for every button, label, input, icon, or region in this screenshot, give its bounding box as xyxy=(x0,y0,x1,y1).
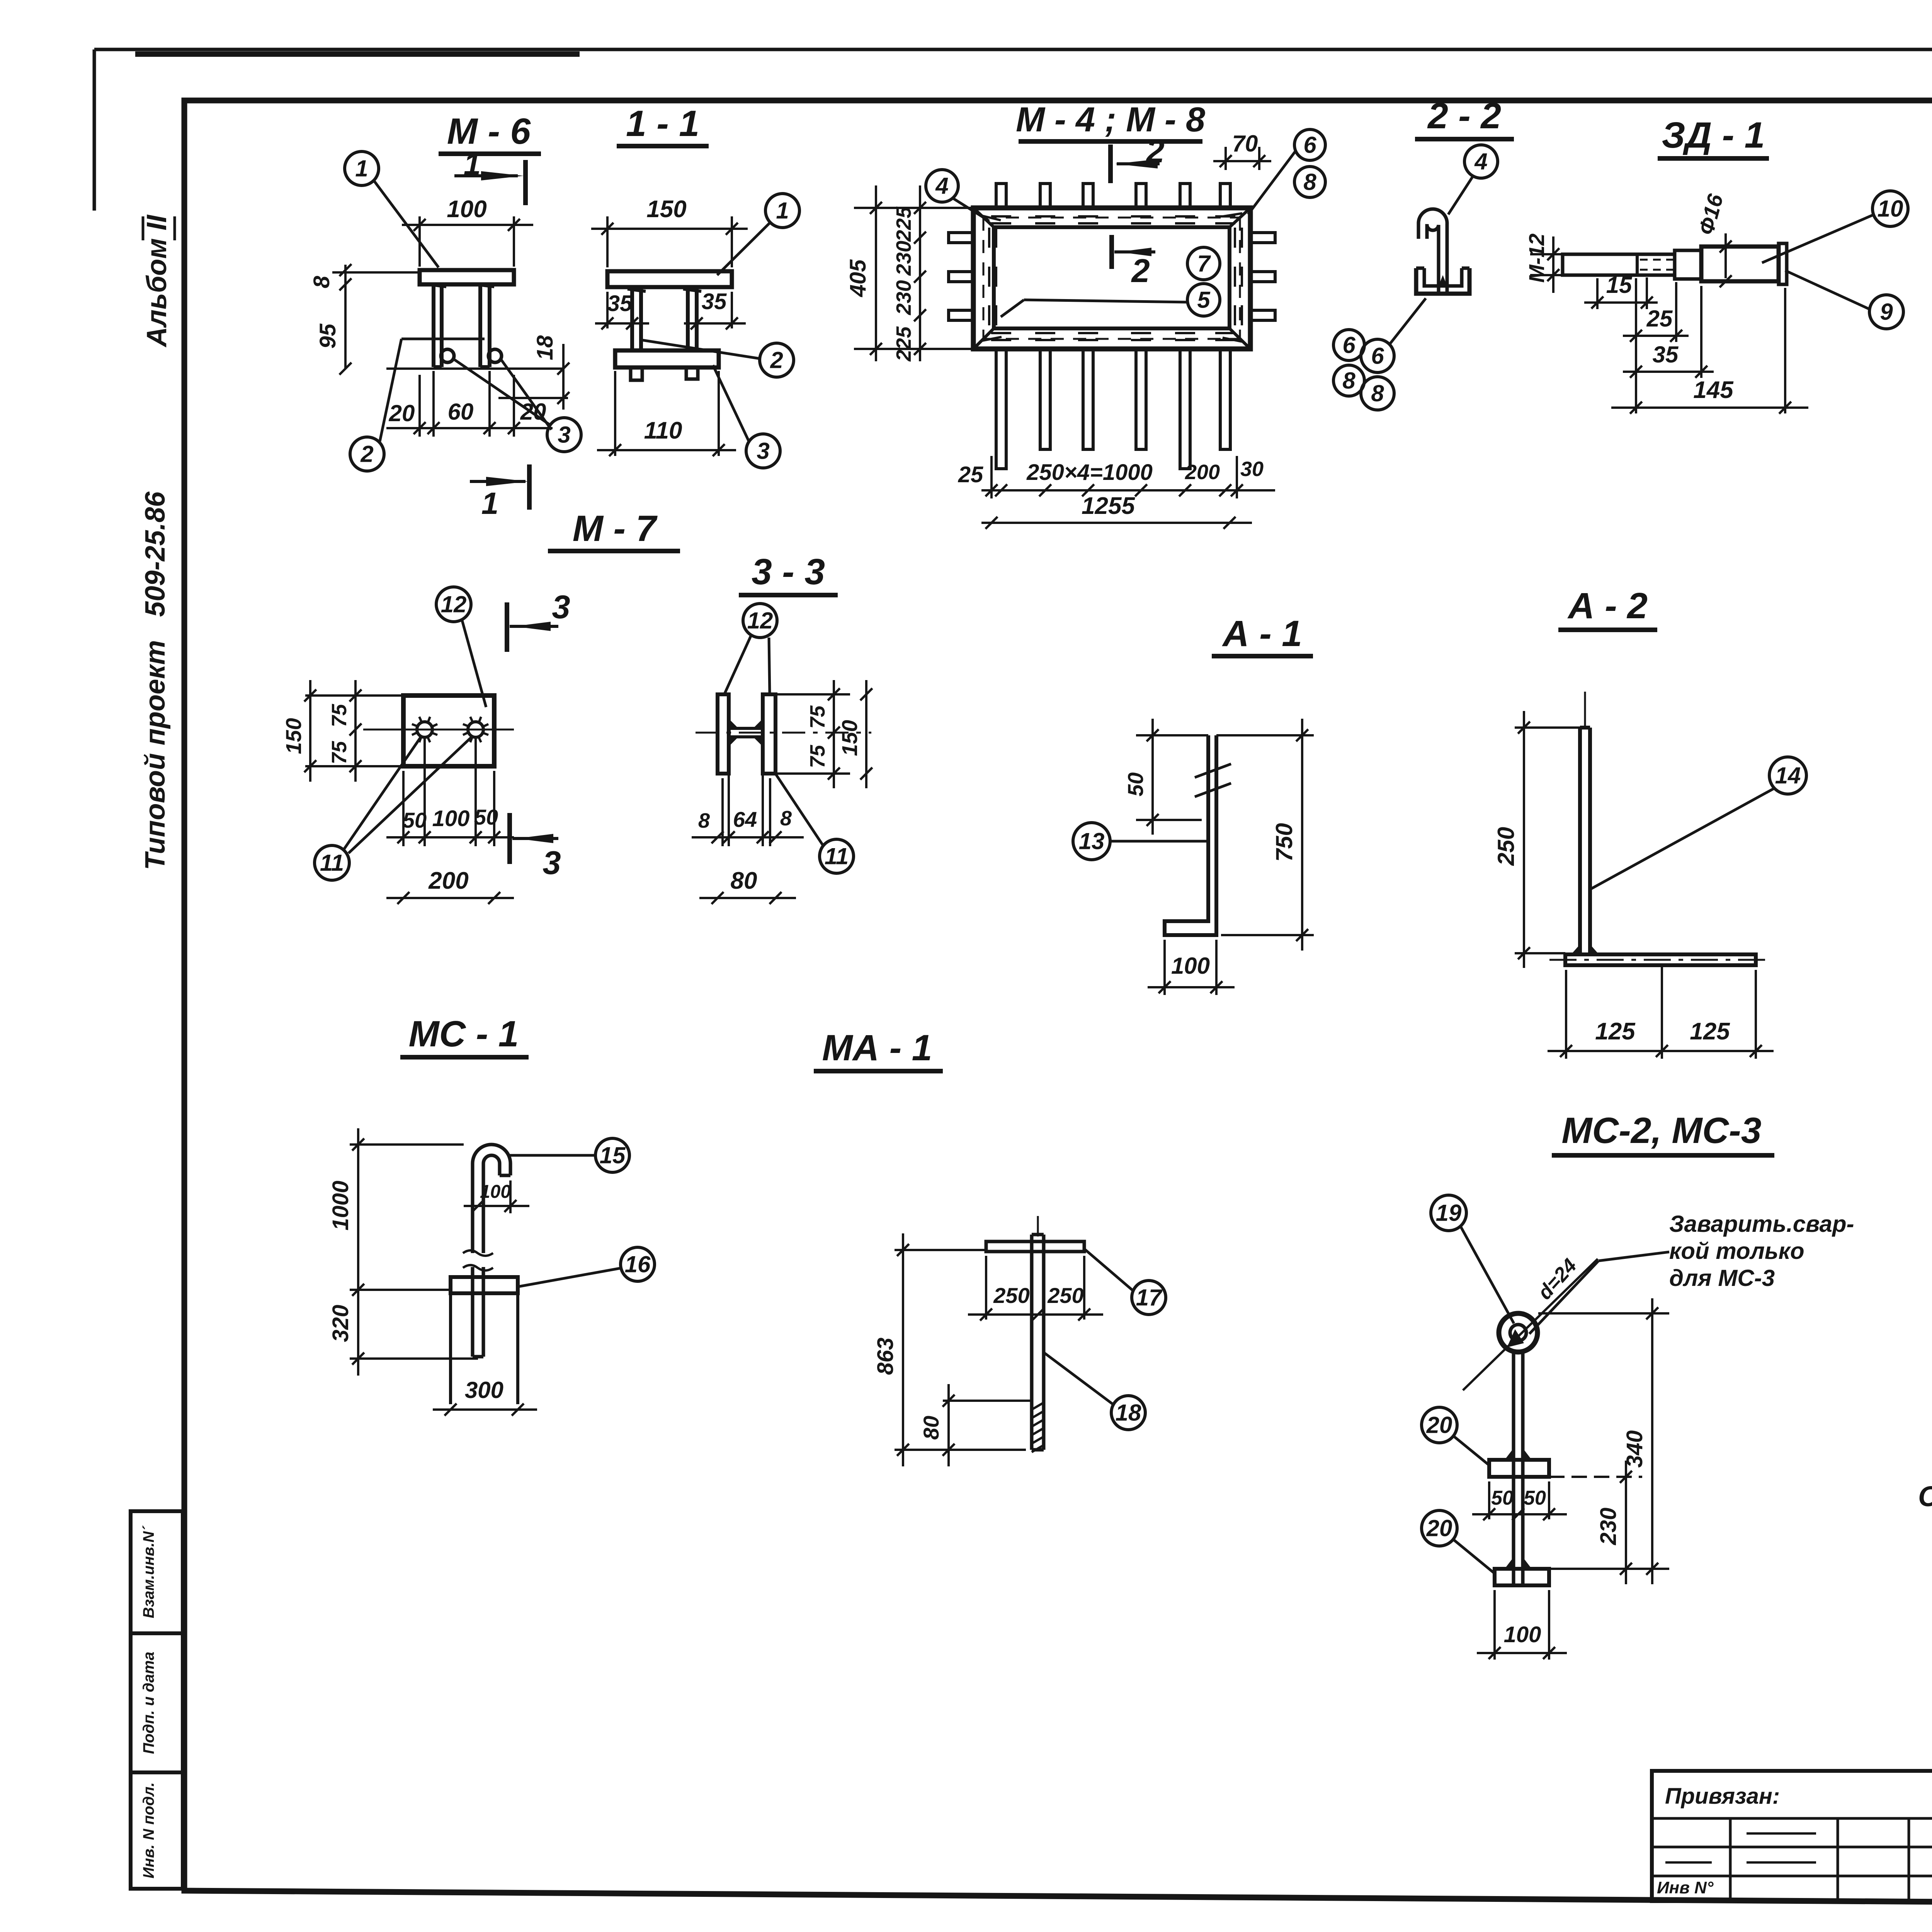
МС-2 upper plate xyxy=(1489,1460,1549,1477)
1-1 dim 35 left xyxy=(606,292,609,328)
М-6 plate xyxy=(420,270,514,284)
А-1 balloon 13 xyxy=(1073,823,1110,860)
М-7 left dims 75 75 150 xyxy=(305,694,403,697)
svg-text:230: 230 xyxy=(892,241,915,276)
svg-text:30: 30 xyxy=(1240,457,1264,481)
3-3 flange left xyxy=(718,694,729,774)
svg-text:Взам.инв.N´: Взам.инв.N´ xyxy=(140,1525,157,1618)
М-4 left dim chain 225 230 230 225 xyxy=(919,185,921,361)
svg-text:300: 300 xyxy=(465,1377,503,1403)
svg-text:250: 250 xyxy=(1493,827,1519,866)
А-2 balloon 14 xyxy=(1769,757,1806,794)
svg-text:25: 25 xyxy=(1646,306,1673,332)
svg-text:75: 75 xyxy=(328,704,351,727)
svg-text:9: 9 xyxy=(1880,299,1893,325)
1-1 balloon 2 xyxy=(760,343,794,377)
svg-text:А - 2: А - 2 xyxy=(1567,585,1648,626)
А-2 rod xyxy=(1578,728,1582,954)
М-7 hole left xyxy=(417,722,432,737)
svg-text:11: 11 xyxy=(320,850,344,876)
1-1 leg stubs below anchor plate xyxy=(631,367,642,380)
svg-text:М - 4 ; М - 8: М - 4 ; М - 8 xyxy=(1016,100,1205,139)
А-2 dim 125 125 xyxy=(1565,970,1567,1059)
МА-1 dim 80 xyxy=(943,1400,1032,1402)
2-2 balloon 6 xyxy=(1361,339,1394,372)
svg-text:2 - 2: 2 - 2 xyxy=(1427,95,1501,136)
svg-text:8: 8 xyxy=(698,809,710,832)
svg-text:3: 3 xyxy=(543,845,561,881)
svg-text:МС - 1: МС - 1 xyxy=(409,1014,519,1054)
svg-text:8: 8 xyxy=(1342,367,1355,393)
1-1 leg right xyxy=(686,287,690,350)
ЗД-1 balloon 9 xyxy=(1869,295,1903,329)
svg-text:200: 200 xyxy=(1185,461,1220,484)
МС-1 balloon 15 xyxy=(595,1138,629,1172)
svg-text:100: 100 xyxy=(1171,953,1210,979)
svg-text:А - 1: А - 1 xyxy=(1222,613,1302,654)
svg-text:60: 60 xyxy=(448,399,474,425)
М-4 frame inner xyxy=(994,227,1230,328)
svg-text:50: 50 xyxy=(474,805,498,829)
view М-6 section mark 1 bottom xyxy=(470,480,526,483)
МС-2 dim 340 xyxy=(1538,1312,1669,1315)
svg-text:80: 80 xyxy=(919,1416,943,1440)
svg-text:5: 5 xyxy=(1197,287,1211,313)
svg-text:100: 100 xyxy=(447,196,486,223)
svg-text:15: 15 xyxy=(1606,272,1633,298)
3-3 dim 80 xyxy=(699,897,796,899)
svg-text:145: 145 xyxy=(1693,377,1734,403)
М-4 bottom studs xyxy=(996,349,1006,469)
svg-text:Инв N°: Инв N° xyxy=(1657,1878,1714,1897)
М-4 dim 405 xyxy=(875,185,877,361)
А-1 dim 100 xyxy=(1163,940,1166,995)
МС-1 sleeve walls xyxy=(449,1293,452,1404)
svg-text:75: 75 xyxy=(806,705,829,729)
svg-text:МА - 1: МА - 1 xyxy=(822,1027,932,1068)
svg-text:80: 80 xyxy=(731,867,757,894)
3-3 bottom dim 8 64 8 xyxy=(721,778,724,846)
svg-text:Заварить.свар-: Заварить.свар- xyxy=(1669,1211,1854,1237)
svg-text:12: 12 xyxy=(441,591,467,617)
М-6 dim 100 xyxy=(418,216,421,267)
svg-text:125: 125 xyxy=(1595,1018,1636,1045)
svg-text:3 - 3: 3 - 3 xyxy=(752,551,825,592)
svg-text:1 - 1: 1 - 1 xyxy=(626,103,699,144)
svg-text:320: 320 xyxy=(328,1305,353,1342)
svg-text:225: 225 xyxy=(892,206,915,242)
svg-text:18: 18 xyxy=(1116,1400,1141,1425)
1-1 dim 110 xyxy=(614,371,616,456)
МС-2 lower plate xyxy=(1495,1569,1549,1585)
svg-text:225: 225 xyxy=(892,326,915,362)
М-7 dim 200 xyxy=(386,897,514,899)
МС-2 rod xyxy=(1512,1350,1515,1585)
svg-text:Подп. и дата: Подп. и дата xyxy=(140,1652,157,1754)
ЗД-1 cylinder xyxy=(1701,247,1779,281)
2-2 leader to balloons 6 8 xyxy=(1390,298,1426,344)
М-4 section mark 2 inner xyxy=(1109,235,1114,269)
svg-text:230: 230 xyxy=(892,280,915,315)
ЗД-1 end cap xyxy=(1779,243,1787,284)
М-7 section mark 3 bottom xyxy=(507,813,512,864)
1-1 anchor plate xyxy=(615,350,719,367)
МС-2 weld above lower plate xyxy=(1505,1557,1532,1569)
svg-text:15: 15 xyxy=(600,1142,626,1168)
svg-text:100: 100 xyxy=(1504,1622,1541,1647)
А-2 weld at junction xyxy=(1571,944,1599,954)
svg-text:200: 200 xyxy=(428,867,468,894)
svg-text:МС-2, МС-3: МС-2, МС-3 xyxy=(1561,1110,1761,1151)
marginal stamp table bottom left xyxy=(131,1511,183,1889)
М-7 balloon 11 xyxy=(315,845,349,880)
М-7 center line through holes xyxy=(363,729,514,731)
ЗД-1 dim 35 xyxy=(1623,371,1714,373)
svg-text:20: 20 xyxy=(1426,1515,1452,1541)
svg-text:70: 70 xyxy=(1232,131,1258,156)
svg-text:50: 50 xyxy=(1524,1487,1546,1509)
svg-text:8: 8 xyxy=(1371,380,1384,406)
М-4 balloon 8 right xyxy=(1333,365,1364,396)
svg-text:7: 7 xyxy=(1197,250,1211,276)
svg-text:4: 4 xyxy=(935,173,948,199)
svg-text:250×4=1000: 250×4=1000 xyxy=(1026,460,1153,485)
МС-1 dim 1000 xyxy=(350,1143,464,1146)
svg-text:230: 230 xyxy=(1596,1508,1621,1546)
svg-text:2: 2 xyxy=(770,347,783,373)
privyazan block xyxy=(1652,1771,1932,1901)
МС-2 diagonal line with label d=24 xyxy=(1463,1259,1598,1390)
МС-2 weld above upper plate xyxy=(1505,1448,1532,1460)
svg-text:Типовой проект 509-25.86: Типовой проект 509-25.86 xyxy=(140,491,171,870)
svg-text:150: 150 xyxy=(837,720,862,756)
МС-2 balloon 20 lower xyxy=(1422,1510,1457,1546)
М-4 balloon 8 top xyxy=(1294,167,1325,197)
МС-2 balloon 19 xyxy=(1431,1195,1466,1231)
М-4 right studs xyxy=(1250,233,1275,243)
МС-1 sleeve plate xyxy=(451,1277,518,1293)
А-1 dim 50 xyxy=(1136,734,1208,736)
М-7 balloon 12 xyxy=(436,587,471,622)
МС-2 dim 230 xyxy=(1549,1476,1642,1478)
А-1 dim 750 xyxy=(1216,734,1314,736)
МС-1 break marks on rod xyxy=(463,1250,493,1270)
svg-text:3: 3 xyxy=(558,422,570,447)
М-6 balloon 1 xyxy=(345,151,379,185)
М-4 hidden dash lines in frame xyxy=(983,217,1240,219)
svg-text:17: 17 xyxy=(1136,1284,1163,1310)
svg-text:75: 75 xyxy=(806,745,829,768)
svg-text:М - 6: М - 6 xyxy=(447,111,531,152)
МС-2 dim 100 xyxy=(1493,1590,1496,1660)
svg-text:16: 16 xyxy=(625,1251,651,1277)
2-2 channel xyxy=(1416,268,1469,294)
3-3 weld triangles xyxy=(729,719,763,747)
svg-text:50: 50 xyxy=(1491,1487,1514,1509)
1-1 balloon 3 xyxy=(746,434,780,468)
svg-text:14: 14 xyxy=(1775,762,1801,788)
М-7 hole rays xyxy=(412,717,488,742)
svg-text:75: 75 xyxy=(328,741,351,764)
svg-text:50: 50 xyxy=(1123,772,1148,796)
svg-text:110: 110 xyxy=(644,417,682,444)
МА-1 crossbar xyxy=(986,1242,1084,1252)
svg-text:Альбом II: Альбом II xyxy=(141,214,172,347)
МА-1 dim 250 250 xyxy=(985,1256,987,1320)
ЗД-1 dim 145 xyxy=(1611,406,1808,409)
М-6 balloon 2 xyxy=(350,437,384,471)
svg-text:64: 64 xyxy=(733,807,757,832)
М-4 balloon 6 top xyxy=(1294,129,1325,160)
svg-text:1: 1 xyxy=(776,197,789,223)
3-3 center line xyxy=(696,732,871,734)
МА-1 threaded bottom hatch xyxy=(1032,1403,1044,1452)
М-7 bottom dim 50 100 50 xyxy=(402,771,405,846)
ЗД-1 dim 15 xyxy=(1596,278,1599,309)
3-3 balloon 11 xyxy=(820,839,854,873)
2-2 hook rod xyxy=(1418,209,1447,294)
МС-2 dim 50 50 xyxy=(1488,1481,1490,1519)
2-2 balloon 4 xyxy=(1464,145,1498,178)
А-1 rod with foot xyxy=(1165,735,1216,935)
svg-text:Привязан:: Привязан: xyxy=(1665,1784,1780,1809)
svg-text:Совместно с данным листом см.: Совместно с данным листом см. листы , 15… xyxy=(1918,1480,1932,1512)
svg-text:25: 25 xyxy=(958,462,983,487)
ЗД-1 thread dashes xyxy=(1640,259,1673,261)
svg-text:10: 10 xyxy=(1878,196,1903,221)
svg-text:150: 150 xyxy=(646,196,686,223)
svg-text:1: 1 xyxy=(481,486,499,520)
1-1 plate xyxy=(607,271,732,287)
svg-text:35: 35 xyxy=(1653,342,1679,367)
МС-1 dim 300 xyxy=(433,1408,537,1411)
svg-text:8: 8 xyxy=(780,807,792,830)
МС-2 note leader xyxy=(1599,1252,1669,1261)
2-2 balloon 8 xyxy=(1361,377,1394,410)
svg-text:для МС-3: для МС-3 xyxy=(1669,1265,1775,1291)
МС-1 balloon 16 xyxy=(621,1247,655,1281)
outer sheet border top xyxy=(94,48,1932,51)
МС-2 eye xyxy=(1499,1313,1537,1352)
outer sheet border left (upper part) xyxy=(93,49,96,211)
ЗД-1 collar xyxy=(1675,250,1701,279)
svg-text:35: 35 xyxy=(607,291,633,316)
svg-text:750: 750 xyxy=(1271,823,1297,862)
М-6 anchor leg right xyxy=(478,284,482,367)
1-1 leg left xyxy=(630,287,634,350)
М-6 dim 8 xyxy=(344,265,347,292)
М-6 anchor leg left xyxy=(432,284,435,367)
М-6 balloon 3 xyxy=(547,418,581,452)
svg-text:100: 100 xyxy=(432,806,470,831)
svg-text:8: 8 xyxy=(309,276,334,288)
svg-text:1000: 1000 xyxy=(328,1180,353,1230)
ЗД-1 dim 25 xyxy=(1635,278,1637,413)
М-4 dim 1255 xyxy=(981,522,1252,524)
svg-text:50: 50 xyxy=(403,808,427,832)
МС-1 dim 320 xyxy=(350,1357,478,1360)
М-6 dim 95 xyxy=(344,284,347,369)
1-1 dim 150 xyxy=(606,216,609,267)
svg-text:250: 250 xyxy=(1047,1283,1083,1308)
svg-text:100: 100 xyxy=(480,1182,511,1202)
svg-text:ЗД - 1: ЗД - 1 xyxy=(1662,115,1765,156)
М-7 hole right xyxy=(468,722,483,737)
М-4 top studs xyxy=(996,184,1006,208)
3-3 right dims 75 75 150 xyxy=(776,693,850,696)
3-3 balloon 12 xyxy=(743,604,777,638)
svg-text:125: 125 xyxy=(1690,1018,1730,1045)
М-4 balloon 7 xyxy=(1187,247,1220,280)
svg-text:35: 35 xyxy=(702,289,727,314)
svg-text:11: 11 xyxy=(825,843,849,869)
М-6 plate extension line left xyxy=(332,271,420,274)
svg-text:6: 6 xyxy=(1371,343,1384,369)
М-4 balloon 6 right xyxy=(1333,330,1364,361)
svg-text:3: 3 xyxy=(552,589,570,626)
МА-1 dim 863 xyxy=(895,1249,986,1251)
МС-1 hook rod xyxy=(473,1145,510,1253)
М-7 section mark 3 top xyxy=(505,602,509,652)
svg-text:20: 20 xyxy=(1426,1412,1452,1438)
svg-text:8: 8 xyxy=(1303,169,1316,195)
А-2 center line through plate xyxy=(1549,959,1770,961)
svg-text:12: 12 xyxy=(747,607,773,633)
svg-text:863: 863 xyxy=(873,1338,898,1375)
1-1 dim 35 right xyxy=(696,294,698,328)
svg-text:2: 2 xyxy=(1131,253,1150,289)
ЗД-1 rod xyxy=(1563,254,1675,275)
МА-1 center line above xyxy=(1037,1216,1039,1236)
М-4 bottom dim line 25 250x4=1000 200 30 xyxy=(981,489,1275,492)
svg-text:6: 6 xyxy=(1303,132,1316,158)
МА-1 balloon 17 xyxy=(1132,1281,1166,1315)
svg-text:150: 150 xyxy=(281,718,306,754)
М-4 left studs xyxy=(949,233,973,243)
М-4 frame outer xyxy=(973,208,1250,349)
svg-text:405: 405 xyxy=(845,259,871,298)
svg-text:18: 18 xyxy=(532,335,558,360)
А-2 base plate xyxy=(1565,954,1756,965)
svg-text:19: 19 xyxy=(1436,1200,1462,1226)
3-3 web xyxy=(729,728,763,737)
svg-text:2: 2 xyxy=(360,441,373,467)
А-2 dim 250 xyxy=(1515,726,1580,729)
privyazan dashes xyxy=(1747,1832,1816,1835)
М-6 leg hook left xyxy=(441,349,454,362)
М-6 dim 18 xyxy=(562,344,565,410)
М-4 frame corner diagonals xyxy=(973,208,994,227)
svg-text:1255: 1255 xyxy=(1082,493,1135,519)
svg-text:13: 13 xyxy=(1079,828,1105,854)
МА-1 rod xyxy=(1030,1235,1034,1450)
М-6 dim chain 20 60 20 xyxy=(418,375,421,437)
svg-text:95: 95 xyxy=(315,323,340,349)
М-6 leg hook right xyxy=(488,349,502,362)
svg-text:3: 3 xyxy=(757,438,769,464)
М-6 bottom extension line xyxy=(386,367,564,370)
МС-1 dim 100 xyxy=(464,1205,529,1207)
svg-text:Инв. N подл.: Инв. N подл. xyxy=(140,1782,157,1879)
1-1 balloon 1 xyxy=(765,194,799,228)
svg-text:М - 7: М - 7 xyxy=(573,508,658,549)
svg-text:4: 4 xyxy=(1474,148,1487,174)
svg-text:6: 6 xyxy=(1342,332,1355,358)
М-7 plate xyxy=(403,696,494,766)
svg-text:1: 1 xyxy=(355,155,368,181)
ЗД-1 balloon 10 xyxy=(1872,191,1908,226)
svg-text:250: 250 xyxy=(993,1283,1029,1308)
М-4 balloon 5 xyxy=(1187,284,1220,316)
А-1 break marks xyxy=(1195,764,1231,777)
3-3 flange right xyxy=(763,694,776,774)
svg-text:20: 20 xyxy=(389,400,415,426)
2-2 weld at hook base xyxy=(1439,275,1447,286)
svg-text:кой только: кой только xyxy=(1669,1238,1804,1264)
МА-1 balloon 18 xyxy=(1111,1396,1145,1430)
МС-2 balloon 20 upper xyxy=(1422,1407,1457,1443)
М-4 balloon 4 xyxy=(926,170,958,202)
